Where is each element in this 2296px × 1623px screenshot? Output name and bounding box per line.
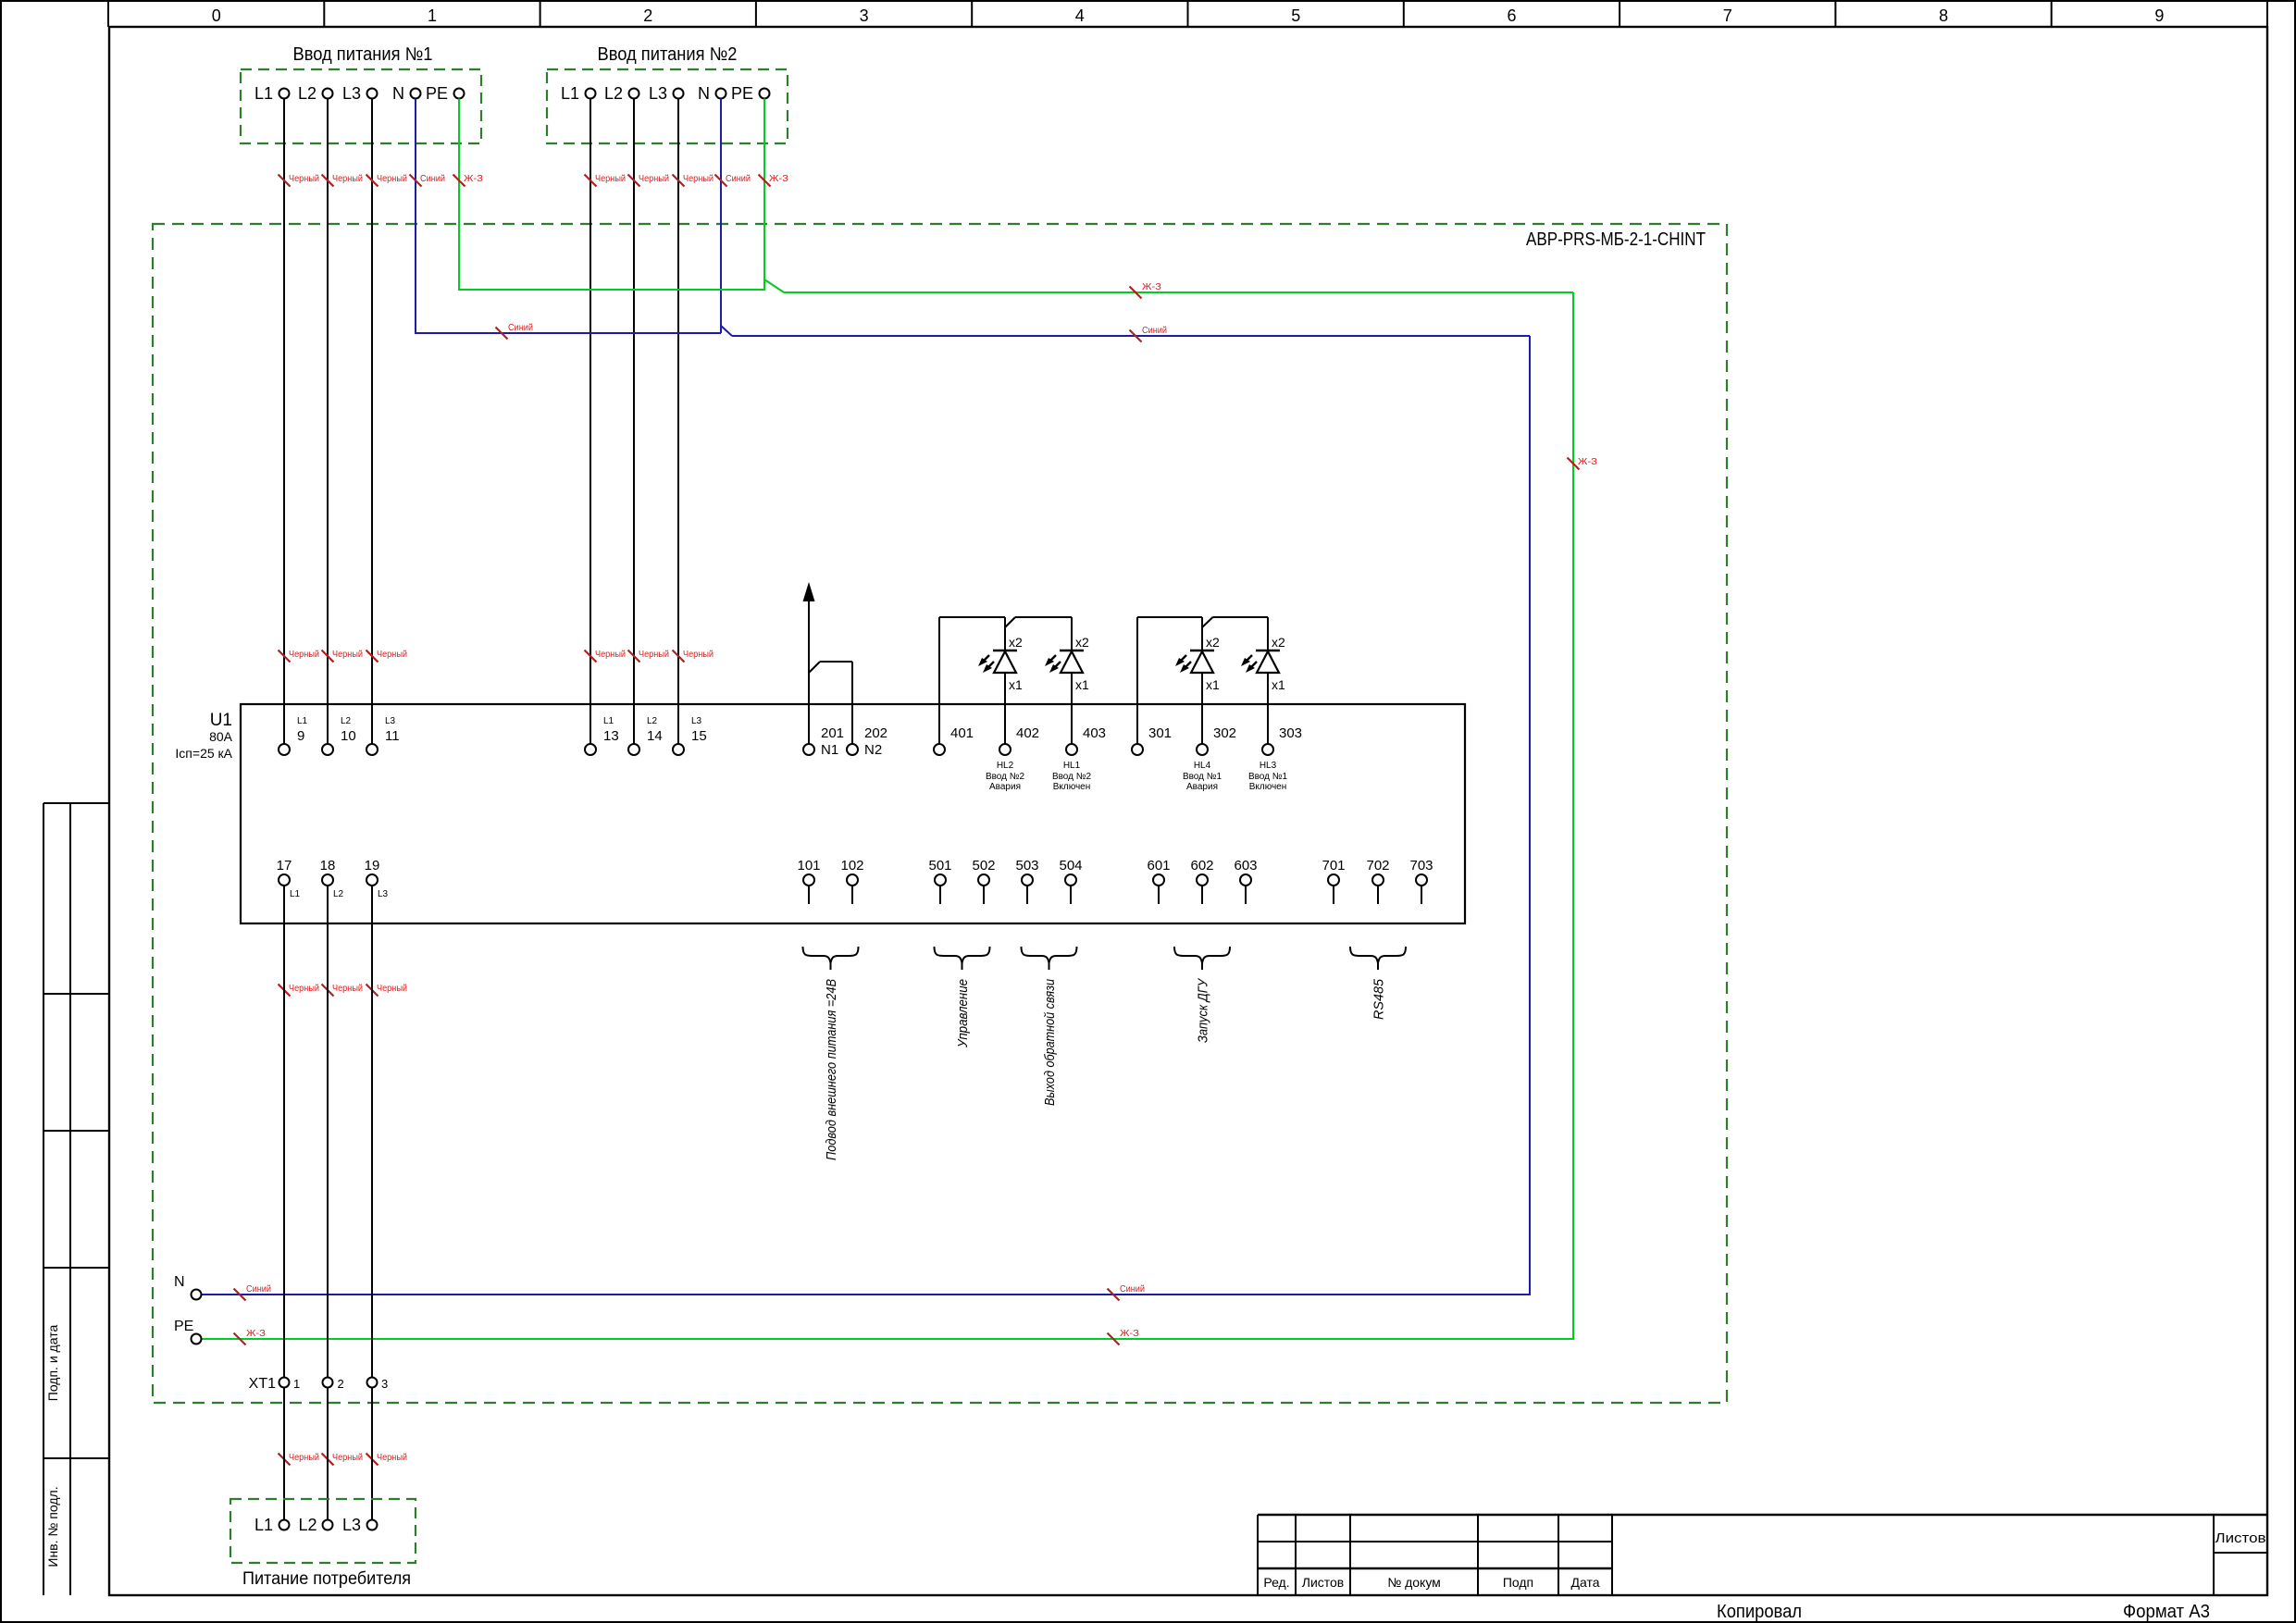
- svg-text:Подп: Подп: [1503, 1575, 1533, 1590]
- wire L1.2 input2 to U1: [590, 99, 591, 745]
- svg-text:301: 301: [1148, 725, 1172, 741]
- svg-text:Черный: Черный: [683, 173, 714, 184]
- wire N input1 vertical: [415, 99, 416, 333]
- svg-text:Черный: Черный: [377, 1452, 407, 1463]
- U1 pin 19 (L3): [365, 858, 389, 899]
- svg-text:Листов: Листов: [1302, 1575, 1345, 1590]
- wire PE input1 vertical: [458, 99, 460, 290]
- wire color labels row input2: [585, 173, 789, 187]
- wire top link 302-303: [1213, 616, 1269, 618]
- U1 pin 702: [1366, 858, 1389, 904]
- wire N horizontal right segment: [732, 335, 1530, 337]
- caption Подвод внешнего питания =24В: [824, 979, 839, 1160]
- svg-text:2: 2: [338, 1377, 344, 1391]
- color label Синий on N bottom mid: [1108, 1283, 1146, 1301]
- svg-text:Синий: Синий: [1142, 325, 1167, 336]
- left margin stamp cells: [43, 803, 109, 1595]
- U1 pin 101: [797, 858, 820, 904]
- wire color labels above U1 group1: [279, 649, 408, 663]
- svg-text:Выход обратной связи: Выход обратной связи: [1042, 978, 1058, 1106]
- svg-text:Ввод №1: Ввод №1: [1248, 772, 1288, 782]
- svg-text:Включен: Включен: [1053, 782, 1091, 792]
- svg-text:5: 5: [1291, 6, 1300, 25]
- svg-text:Инв. № подл.: Инв. № подл.: [45, 1486, 60, 1567]
- color label Ж-З on PE right vertical: [1568, 456, 1598, 470]
- svg-text:L2: L2: [333, 889, 344, 899]
- svg-text:L1: L1: [290, 889, 301, 899]
- U1 pin 401: [934, 725, 974, 755]
- bridge N1 to N2: [809, 662, 852, 744]
- svg-text:N: N: [698, 84, 710, 103]
- XT1 terminal 2: [323, 1377, 344, 1391]
- svg-text:602: 602: [1190, 858, 1213, 873]
- svg-text:Подп. и дата: Подп. и дата: [45, 1325, 60, 1402]
- svg-text:Ж-З: Ж-З: [769, 173, 788, 184]
- svg-text:Черный: Черный: [332, 1452, 363, 1463]
- svg-text:Ввод питания №1: Ввод питания №1: [293, 44, 433, 65]
- U1 pin 10 (L2): [322, 716, 356, 755]
- svg-text:202: 202: [864, 725, 887, 741]
- svg-text:501: 501: [928, 858, 951, 873]
- U1 value Icп=25 кА: [175, 746, 232, 761]
- svg-text:603: 603: [1234, 858, 1257, 873]
- svg-text:L1: L1: [561, 84, 579, 103]
- svg-text:6: 6: [1507, 6, 1516, 25]
- svg-text:L3: L3: [691, 716, 702, 726]
- svg-text:Питание потребителя: Питание потребителя: [242, 1569, 411, 1589]
- top ruler column ticks and numbers: [108, 1, 2267, 27]
- title Питание потребителя: [242, 1569, 411, 1589]
- power input no.1 dashed box: [241, 69, 481, 143]
- wire L2.1 input1 to U1: [327, 99, 329, 745]
- HL1 caption: [1052, 761, 1092, 792]
- U1 pin 703: [1409, 858, 1433, 904]
- svg-text:Черный: Черный: [332, 649, 363, 660]
- wire N horizontal left segment: [415, 332, 721, 334]
- svg-text:401: 401: [950, 725, 974, 741]
- svg-text:RS485: RS485: [1371, 978, 1387, 1020]
- wire PE input2 vertical: [763, 99, 765, 291]
- svg-text:HL4: HL4: [1194, 761, 1211, 771]
- svg-text:N: N: [174, 1274, 185, 1290]
- input 2 terminal L3: [649, 84, 684, 103]
- svg-text:HL2: HL2: [997, 761, 1014, 771]
- svg-text:Листов: Листов: [2215, 1530, 2266, 1546]
- wire L1 U1 to consumer: [283, 886, 285, 1520]
- XT1 terminal 1: [279, 1377, 301, 1391]
- svg-text:1: 1: [428, 6, 437, 25]
- svg-text:Черный: Черный: [639, 173, 669, 184]
- U1 pin 302: [1197, 725, 1236, 755]
- color label Синий on N horizontal left: [496, 322, 534, 340]
- ATS controller U1 box: [241, 704, 1465, 923]
- svg-text:L1: L1: [254, 84, 273, 103]
- U1 designator: [210, 711, 232, 730]
- svg-text:0: 0: [212, 6, 221, 25]
- wire color labels below U1: [279, 983, 408, 997]
- U1 pin 301: [1132, 725, 1172, 755]
- svg-text:Ж-З: Ж-З: [246, 1328, 266, 1339]
- svg-text:1: 1: [293, 1377, 300, 1391]
- wire top link 402-403: [1015, 616, 1072, 618]
- U1 pin 701: [1322, 858, 1345, 904]
- terminal PE left: [174, 1319, 202, 1344]
- U1 pin 403: [1066, 725, 1106, 755]
- power input no.2 dashed box: [547, 69, 788, 143]
- svg-text:L3: L3: [385, 716, 396, 726]
- U1 pin 303: [1262, 725, 1302, 755]
- input 2 terminal N: [698, 84, 726, 103]
- U1 pin 402: [999, 725, 1039, 755]
- svg-text:L3: L3: [342, 84, 361, 103]
- wire L2.2 input2 to U1: [633, 99, 635, 745]
- input 1 terminal L3: [342, 84, 378, 103]
- title Ввод питания №2: [598, 44, 738, 65]
- wire L1.1 input1 to U1: [283, 99, 285, 745]
- svg-text:L2: L2: [604, 84, 623, 103]
- svg-text:101: 101: [797, 858, 820, 873]
- svg-text:9: 9: [297, 728, 304, 744]
- svg-text:502: 502: [972, 858, 995, 873]
- svg-text:L1: L1: [297, 716, 308, 726]
- U1 pin 13 (L1): [585, 716, 619, 755]
- svg-text:8: 8: [1939, 6, 1948, 25]
- svg-text:Черный: Черный: [683, 649, 714, 660]
- LED HL3 symbol: [1241, 635, 1285, 744]
- svg-text:303: 303: [1279, 725, 1302, 741]
- caption Запуск ДГУ: [1196, 978, 1211, 1043]
- LED HL1 symbol: [1045, 635, 1089, 744]
- U1 pin 202 N2: [847, 725, 887, 758]
- enclosure name label: [1526, 229, 1706, 250]
- wire 302 drop to LED: [1201, 617, 1203, 650]
- svg-text:Копировал: Копировал: [1717, 1602, 1802, 1622]
- svg-text:Ввод №1: Ввод №1: [1183, 772, 1222, 782]
- color label Синий on N bottom: [234, 1283, 272, 1301]
- svg-text:x1: x1: [1206, 677, 1220, 692]
- svg-text:9: 9: [2154, 6, 2164, 25]
- svg-text:L2: L2: [341, 716, 352, 726]
- svg-text:HL1: HL1: [1063, 761, 1081, 771]
- svg-text:Синий: Синий: [420, 173, 445, 184]
- brace feedback: [1022, 947, 1077, 970]
- svg-text:201: 201: [821, 725, 844, 741]
- svg-text:L1: L1: [603, 716, 614, 726]
- svg-text:102: 102: [840, 858, 863, 873]
- svg-text:Ввод №2: Ввод №2: [986, 772, 1025, 782]
- svg-text:x2: x2: [1272, 635, 1285, 650]
- svg-text:Ж-З: Ж-З: [1120, 1328, 1139, 1339]
- svg-text:Ред.: Ред.: [1263, 1575, 1289, 1590]
- caption Выход обратной связи: [1042, 978, 1058, 1106]
- svg-text:7: 7: [1723, 6, 1732, 25]
- U1 pin 503: [1015, 858, 1038, 904]
- LED HL2 symbol: [978, 635, 1023, 744]
- junction jog 402-403: [1005, 617, 1015, 627]
- wire top link 401-402: [939, 616, 1005, 618]
- svg-text:Черный: Черный: [332, 983, 363, 994]
- svg-text:Синий: Синий: [726, 173, 751, 184]
- wire L3 U1 to consumer: [371, 886, 373, 1520]
- svg-text:3: 3: [381, 1377, 388, 1391]
- svg-text:703: 703: [1409, 858, 1433, 873]
- brace genset start: [1174, 947, 1230, 970]
- svg-text:Ж-З: Ж-З: [1578, 456, 1597, 467]
- wire L3.1 input1 to U1: [371, 99, 373, 745]
- svg-text:Включен: Включен: [1249, 782, 1287, 792]
- title block grid: [1258, 1515, 2268, 1595]
- svg-text:L3: L3: [378, 889, 389, 899]
- input 1 terminal PE: [426, 84, 465, 103]
- U1 value 80А: [209, 729, 233, 744]
- svg-text:Авария: Авария: [1186, 782, 1218, 792]
- U1 pin 601: [1147, 858, 1170, 904]
- brace RS485: [1350, 947, 1406, 970]
- svg-text:Управление: Управление: [955, 979, 971, 1048]
- svg-text:Ввод питания №2: Ввод питания №2: [598, 44, 738, 65]
- external supply arrow: [803, 582, 815, 744]
- input 1 terminal N: [392, 84, 421, 103]
- svg-text:14: 14: [647, 728, 663, 744]
- wire top link 301-302: [1137, 616, 1202, 618]
- svg-text:Черный: Черный: [289, 649, 319, 660]
- svg-text:3: 3: [860, 6, 869, 25]
- U1 pin 501: [928, 858, 951, 904]
- svg-text:Черный: Черный: [377, 649, 407, 660]
- label Подп. и дата: [45, 1325, 60, 1402]
- wire color labels above U1 group2: [585, 649, 714, 663]
- svg-text:503: 503: [1015, 858, 1038, 873]
- wire N bottom horizontal: [202, 1294, 1531, 1295]
- svg-text:Формат А3: Формат А3: [2123, 1602, 2210, 1622]
- U1 pin 11 (L3): [366, 716, 400, 755]
- consumer terminal L3: [342, 1516, 378, 1534]
- wire color labels row input1: [279, 173, 484, 187]
- svg-text:601: 601: [1147, 858, 1170, 873]
- footer captions: [1717, 1602, 2210, 1622]
- U1 pin 9 (L1): [279, 716, 308, 755]
- HL2 caption: [986, 761, 1025, 792]
- svg-text:x1: x1: [1009, 677, 1023, 692]
- svg-text:Ж-З: Ж-З: [464, 173, 483, 184]
- svg-text:15: 15: [691, 728, 707, 744]
- svg-text:Черный: Черный: [639, 649, 669, 660]
- svg-text:4: 4: [1075, 6, 1085, 25]
- wire PE right vertical: [1572, 292, 1574, 1339]
- cabinet dashed enclosure АВР-PRS-МБ-2-1-CHINT: [153, 224, 1727, 1403]
- wire L3.2 input2 to U1: [677, 99, 679, 745]
- wire PE horizontal left segment: [458, 289, 765, 291]
- brace external supply: [803, 947, 859, 970]
- svg-text:Черный: Черный: [377, 983, 407, 994]
- wire N right vertical: [1529, 336, 1531, 1295]
- color label Ж-З on PE horizontal right: [1130, 281, 1162, 299]
- svg-text:701: 701: [1322, 858, 1345, 873]
- svg-text:PE: PE: [174, 1319, 193, 1334]
- title block captions: [1263, 1530, 2265, 1590]
- svg-text:Ввод №2: Ввод №2: [1052, 772, 1092, 782]
- U1 pin 17 (L1): [277, 858, 301, 899]
- junction jog N: [721, 326, 732, 336]
- junction jog PE: [764, 279, 784, 292]
- consumer terminal L2: [298, 1516, 332, 1534]
- svg-text:18: 18: [320, 858, 336, 873]
- svg-text:Черный: Черный: [595, 173, 626, 184]
- svg-text:N1: N1: [821, 742, 838, 758]
- consumer dashed box: [230, 1499, 416, 1563]
- svg-text:L3: L3: [342, 1516, 361, 1534]
- color label Ж-З on PE bottom: [234, 1328, 267, 1345]
- U1 pin 504: [1059, 858, 1082, 904]
- wire color labels consumer feed: [279, 1452, 408, 1466]
- svg-text:Черный: Черный: [332, 173, 363, 184]
- wire pin401 riser: [938, 617, 940, 744]
- title Ввод питания №1: [293, 44, 433, 65]
- terminal strip XT1 designator: [249, 1376, 276, 1392]
- wire 303 drop to LED: [1267, 617, 1269, 650]
- svg-text:Icп=25 кА: Icп=25 кА: [175, 746, 232, 761]
- svg-text:504: 504: [1059, 858, 1082, 873]
- svg-text:x2: x2: [1075, 635, 1089, 650]
- label Инв. № подл.: [45, 1486, 60, 1567]
- wire PE horizontal right segment: [784, 291, 1573, 293]
- svg-text:Запуск ДГУ: Запуск ДГУ: [1196, 978, 1211, 1043]
- LED HL4 symbol: [1175, 635, 1220, 744]
- svg-text:Черный: Черный: [377, 173, 407, 184]
- color label Синий on N horizontal right: [1130, 325, 1168, 342]
- wire L2 U1 to consumer: [327, 886, 329, 1520]
- XT1 terminal 3: [367, 1377, 389, 1391]
- svg-text:80А: 80А: [209, 729, 233, 744]
- svg-text:L2: L2: [298, 1516, 316, 1534]
- U1 pin 502: [972, 858, 995, 904]
- svg-text:HL3: HL3: [1260, 761, 1277, 771]
- svg-text:L2: L2: [298, 84, 316, 103]
- wire PE bottom horizontal: [202, 1338, 1574, 1340]
- svg-text:302: 302: [1213, 725, 1236, 741]
- color label Ж-З on PE bottom mid: [1108, 1328, 1140, 1345]
- HL4 caption: [1183, 761, 1222, 792]
- svg-text:Черный: Черный: [289, 983, 319, 994]
- input 2 terminal L1: [561, 84, 596, 103]
- svg-text:XT1: XT1: [249, 1376, 276, 1392]
- wire pin301 riser: [1136, 617, 1138, 744]
- svg-text:L3: L3: [649, 84, 667, 103]
- svg-text:Синий: Синий: [246, 1283, 271, 1295]
- svg-text:19: 19: [365, 858, 380, 873]
- svg-text:702: 702: [1366, 858, 1389, 873]
- svg-text:403: 403: [1083, 725, 1106, 741]
- svg-text:L1: L1: [254, 1516, 273, 1534]
- svg-text:Дата: Дата: [1570, 1575, 1599, 1590]
- svg-text:x2: x2: [1009, 635, 1023, 650]
- input 2 terminal PE: [731, 84, 770, 103]
- svg-text:L2: L2: [647, 716, 658, 726]
- caption RS485: [1371, 978, 1387, 1020]
- svg-text:17: 17: [277, 858, 292, 873]
- U1 pin 603: [1234, 858, 1257, 904]
- svg-text:№ докум: № докум: [1387, 1575, 1441, 1590]
- consumer terminal L1: [254, 1516, 290, 1534]
- U1 pin 102: [840, 858, 863, 904]
- svg-text:U1: U1: [210, 711, 232, 730]
- brace control: [935, 947, 990, 970]
- svg-text:13: 13: [603, 728, 619, 744]
- input 1 terminal L1: [254, 84, 290, 103]
- HL3 caption: [1248, 761, 1288, 792]
- U1 pin 14 (L2): [628, 716, 663, 755]
- U1 pin 18 (L2): [320, 858, 344, 899]
- U1 pin 201 N1: [803, 725, 844, 758]
- U1 pin 602: [1190, 858, 1213, 904]
- svg-text:x2: x2: [1206, 635, 1220, 650]
- svg-text:10: 10: [341, 728, 356, 744]
- svg-text:PE: PE: [731, 84, 753, 103]
- svg-text:Подвод внешнего питания =24В: Подвод внешнего питания =24В: [824, 979, 839, 1160]
- svg-text:Синий: Синий: [508, 322, 533, 333]
- wire N input2 vertical: [720, 99, 722, 334]
- svg-text:2: 2: [643, 6, 652, 25]
- svg-text:Черный: Черный: [289, 1452, 319, 1463]
- input 2 terminal L2: [604, 84, 639, 103]
- svg-text:Авария: Авария: [989, 782, 1021, 792]
- terminal N left: [174, 1274, 202, 1300]
- wire 403 drop to LED: [1071, 617, 1073, 650]
- input 1 terminal L2: [298, 84, 333, 103]
- caption Управление: [955, 979, 971, 1048]
- wire 402 drop to LED: [1004, 617, 1006, 650]
- svg-text:x1: x1: [1272, 677, 1285, 692]
- svg-text:Ж-З: Ж-З: [1142, 281, 1161, 292]
- svg-text:Черный: Черный: [595, 649, 626, 660]
- U1 pin 15 (L3): [673, 716, 707, 755]
- svg-text:АВР-PRS-МБ-2-1-CHINT: АВР-PRS-МБ-2-1-CHINT: [1526, 229, 1706, 250]
- svg-text:PE: PE: [426, 84, 448, 103]
- svg-text:N2: N2: [864, 742, 882, 758]
- svg-text:11: 11: [385, 728, 400, 744]
- svg-text:x1: x1: [1075, 677, 1089, 692]
- junction jog 302-303: [1202, 617, 1213, 627]
- svg-text:402: 402: [1016, 725, 1039, 741]
- svg-text:Черный: Черный: [289, 173, 319, 184]
- svg-text:N: N: [392, 84, 404, 103]
- svg-text:Синий: Синий: [1120, 1283, 1145, 1295]
